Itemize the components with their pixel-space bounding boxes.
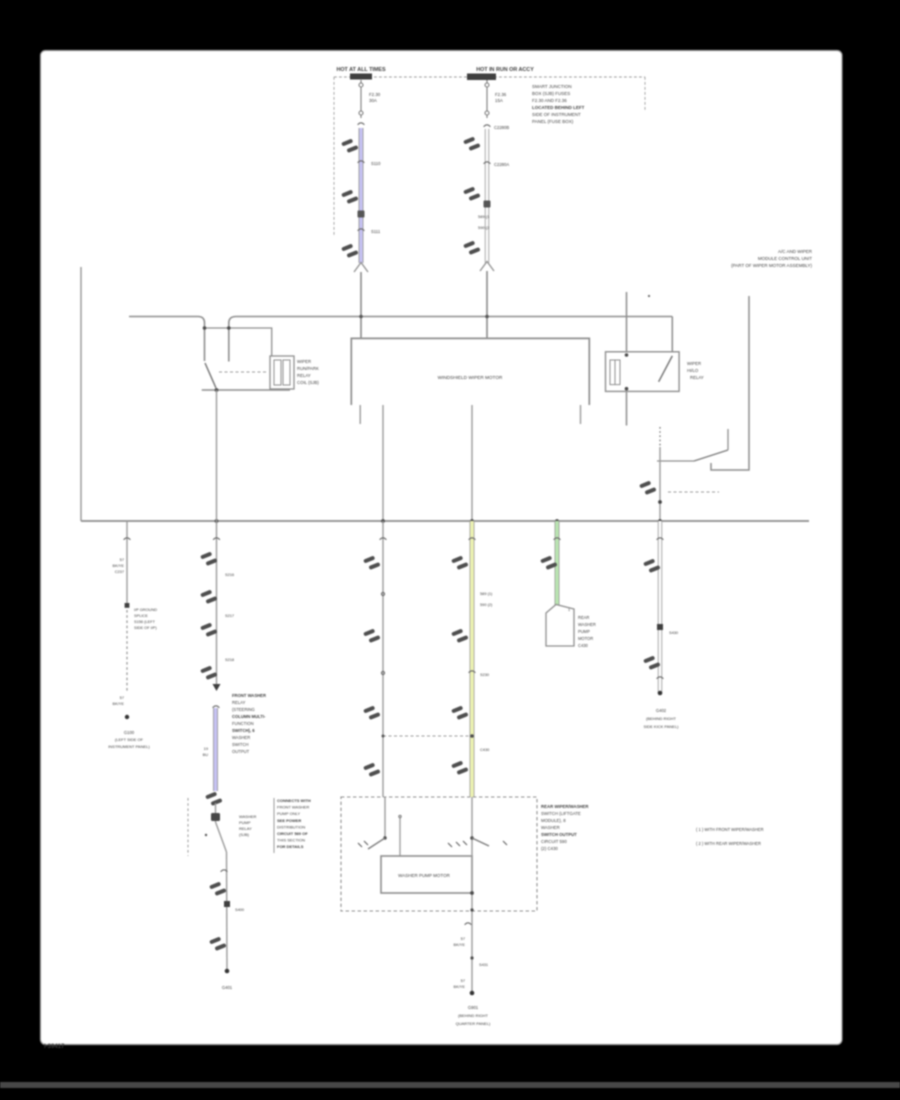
drop2 lower wire a: [215, 803, 217, 822]
svg-text:S216: S216: [225, 572, 234, 577]
drop1 connector tick: [124, 538, 131, 540]
svg-text:( 1 ) WITH FRONT WIPER/WASHER: ( 1 ) WITH FRONT WIPER/WASHER: [696, 827, 764, 832]
svg-text:SWITCH: SWITCH: [232, 742, 249, 747]
svg-text:G401: G401: [222, 985, 233, 990]
bracket dashed left: [187, 798, 189, 856]
svg-text:590 (2: 590 (2: [478, 225, 490, 230]
drop5 green wire: [555, 521, 560, 606]
wire left frame vertical: [80, 267, 82, 521]
drop2 code mark 4: [200, 666, 217, 680]
drop3 wire: [382, 521, 384, 797]
svg-text:C237: C237: [115, 569, 124, 574]
drop4 splice S230: [469, 671, 476, 673]
svg-text:BOX (SJB) FUSES: BOX (SJB) FUSES: [532, 91, 570, 96]
svg-text:CIRCUIT 590: CIRCUIT 590: [541, 839, 567, 844]
svg-text:RELAY: RELAY: [239, 826, 252, 831]
drop3 code mark 1: [363, 556, 380, 570]
relay K2 blade: [659, 356, 673, 382]
connector tick blue mid1: [358, 161, 365, 163]
switch contact stub: [399, 818, 401, 856]
multifunction switch dashed box: [341, 797, 537, 911]
drop4 tick: [469, 538, 476, 540]
switch blade right: [472, 838, 489, 846]
SJB text block: [532, 84, 585, 124]
svg-text:DISTRIBUTION: DISTRIBUTION: [277, 824, 305, 829]
wire main horizontal right segment: [229, 317, 673, 362]
svg-text:589 (1): 589 (1): [480, 591, 493, 596]
drop4 code mark 3: [451, 706, 468, 720]
svg-text:CONNECTS WITH: CONNECTS WITH: [277, 798, 311, 803]
drop1 wire: [126, 521, 128, 606]
relay K1 coil box: [270, 356, 294, 389]
module loop wire: [711, 296, 749, 470]
svg-text:RUN/PARK: RUN/PARK: [297, 366, 319, 371]
wire blue feed left: [359, 128, 364, 263]
drop2 code rows blue: [203, 746, 209, 757]
relay K1 label: [297, 359, 319, 385]
washer pump box: [546, 605, 574, 647]
svg-text:WASHER: WASHER: [541, 825, 560, 830]
drop3 code mark 4: [363, 763, 380, 777]
wire corner down to relay K2: [671, 317, 673, 353]
footer strip: [0, 1082, 900, 1088]
switch module label: [541, 804, 589, 851]
svg-text:S218: S218: [225, 657, 234, 662]
svg-text:30A: 30A: [369, 98, 377, 103]
connector tick blue mid2: [358, 229, 365, 231]
svg-text:57: 57: [461, 978, 465, 983]
svg-text:HI/LO: HI/LO: [687, 368, 699, 373]
svg-text:SWITCH (LIFTGATE: SWITCH (LIFTGATE: [541, 811, 581, 816]
relay K2 coil: [610, 360, 620, 385]
fuse F2 element: [485, 80, 489, 118]
drop2 wire blue: [213, 708, 218, 791]
fuse box dashed outline left: [333, 77, 335, 235]
svg-text:S110: S110: [371, 161, 381, 166]
drop2 code mark 5: [209, 882, 226, 896]
wire code mark B3: [463, 241, 480, 255]
fuse F2 value label: [495, 92, 507, 103]
fuse F2 tab: [467, 74, 496, 81]
svg-text:F2.36: F2.36: [495, 92, 507, 97]
svg-text:S111: S111: [371, 229, 381, 234]
ground G401 node: [225, 969, 230, 974]
connector C1 on left feed: [358, 123, 365, 125]
node bus d4: [470, 519, 474, 523]
svg-text:WINDSHIELD WIPER MOTOR: WINDSHIELD WIPER MOTOR: [438, 375, 503, 380]
dashed ref link: [668, 491, 719, 493]
wire right fuse to bus: [486, 271, 488, 339]
svg-text:C430: C430: [480, 747, 490, 752]
wiper motor pin 3 wire: [471, 405, 473, 521]
label washer pump relay: [239, 814, 257, 837]
svg-text:FRONT WASHER: FRONT WASHER: [277, 805, 309, 810]
drop6 tick 2: [657, 677, 664, 679]
stub top mark: [399, 815, 401, 817]
relay K1 bottom wire: [202, 389, 290, 391]
node sw right 1: [470, 836, 474, 840]
wire left fuse to bus: [360, 272, 362, 339]
svg-text:REAR WIPER/WASHER: REAR WIPER/WASHER: [541, 804, 589, 809]
wire K2 to bus: [659, 447, 661, 521]
drop3 code mark 2: [363, 629, 380, 643]
drop1 wire code rows: [113, 557, 125, 574]
drop2 code mark 2: [200, 590, 217, 604]
svg-text:57: 57: [120, 557, 124, 562]
washer pump label: [578, 615, 596, 648]
svg-text:57: 57: [461, 936, 465, 941]
drop4 yellow wire: [470, 521, 475, 797]
ground G901 label: [456, 1005, 491, 1026]
svg-text:SIDE OF I/P): SIDE OF I/P): [134, 625, 157, 630]
svg-text:WIPER: WIPER: [687, 361, 701, 366]
note block right: [277, 798, 311, 849]
drop2 tick 2: [213, 706, 220, 708]
svg-text:SWITCH OUTPUT: SWITCH OUTPUT: [541, 832, 577, 837]
svg-text:C2280A: C2280A: [494, 162, 509, 167]
svg-text:15A: 15A: [495, 98, 503, 103]
svg-text:PANEL (FUSE BOX): PANEL (FUSE BOX): [532, 119, 574, 124]
svg-text:590 (2): 590 (2): [480, 602, 493, 607]
svg-text:BU: BU: [203, 752, 209, 757]
drop4 code mark 2: [451, 629, 468, 643]
park switch base: [657, 460, 694, 462]
inline connector blob right feed: [484, 201, 491, 208]
svg-text:(SJB): (SJB): [239, 832, 250, 837]
washer pump inner box: [381, 856, 472, 893]
svg-text:C430: C430: [578, 643, 589, 648]
node bus d5: [555, 519, 559, 523]
svg-text:THIS SECTION: THIS SECTION: [277, 838, 305, 843]
svg-text:FUNCTION: FUNCTION: [232, 721, 254, 726]
svg-text:MODULE CONTROL UNIT: MODULE CONTROL UNIT: [758, 256, 812, 261]
drop2 inline connector block: [211, 813, 220, 821]
relay K2 box: [606, 352, 680, 392]
connector dotted C3: [484, 162, 491, 164]
drop2 diagonal wire: [216, 822, 227, 852]
node K1 a: [203, 326, 207, 330]
contact marks right: [448, 841, 507, 847]
svg-text:CIRCUIT 589 OF: CIRCUIT 589 OF: [277, 831, 308, 836]
svg-text:PUMP: PUMP: [239, 820, 251, 825]
svg-text:A/C AND WIPER: A/C AND WIPER: [778, 249, 813, 254]
svg-text:l-39417: l-39417: [44, 1044, 65, 1050]
svg-text:C2280B: C2280B: [494, 125, 509, 130]
svg-text:SIDE OF INSTRUMENT: SIDE OF INSTRUMENT: [532, 112, 581, 117]
ground bus horizontal: [81, 520, 809, 522]
wiper motor box: [351, 338, 589, 405]
svg-text:F2.30: F2.30: [369, 92, 381, 97]
fuse F1 tab: [350, 74, 372, 80]
svg-text:589 (1: 589 (1: [478, 214, 490, 219]
relay K2 vertical wire: [626, 292, 628, 426]
small ref dot: [205, 834, 207, 836]
svg-text:S156 (LEFT: S156 (LEFT: [134, 619, 156, 624]
svg-text:MOTOR: MOTOR: [578, 636, 593, 641]
connector chevron end left: [354, 263, 368, 273]
svg-text:RELAY: RELAY: [297, 373, 311, 378]
svg-text:BK/YE: BK/YE: [113, 563, 125, 568]
svg-text:RELAY: RELAY: [690, 375, 704, 380]
svg-text:FOR DETAILS: FOR DETAILS: [277, 844, 304, 849]
fuse F1 element: [359, 80, 363, 118]
node bus d2: [215, 519, 219, 523]
svg-text:WASHER: WASHER: [232, 735, 250, 740]
svg-text:57: 57: [120, 695, 124, 700]
svg-text:S430: S430: [669, 630, 679, 635]
svg-text:(BEHIND RIGHT: (BEHIND RIGHT: [458, 1013, 489, 1018]
connector chevron end right: [480, 262, 494, 272]
wire main horizontal left segment: [129, 317, 205, 362]
drop2 connector tick: [213, 538, 220, 540]
drop6 code mark 1: [643, 559, 660, 573]
wire white feed right: [485, 129, 489, 263]
relay K1 linkage dashed: [219, 371, 268, 373]
relay K1 coil bars: [274, 360, 290, 385]
fuse box dashed outline right: [644, 77, 646, 112]
module label: [731, 249, 813, 268]
switch wire left: [384, 797, 386, 838]
drop6 splice block: [657, 624, 663, 630]
fuse box dashed outline top: [334, 76, 645, 78]
node jumper left: [382, 735, 385, 738]
below box tick: [465, 923, 472, 925]
svg-text:SWITCH), 6: SWITCH), 6: [232, 728, 255, 733]
drop4 code mark 4: [451, 761, 468, 775]
svg-text:(STEERING: (STEERING: [232, 707, 255, 712]
svg-text:S431: S431: [479, 962, 488, 967]
svg-text:G402: G402: [656, 708, 667, 713]
svg-text:FRONT WASHER: FRONT WASHER: [232, 693, 266, 698]
drop2 wire upper: [216, 390, 218, 684]
drop6 tick: [657, 538, 664, 540]
svg-text:I/P GROUND: I/P GROUND: [134, 607, 157, 612]
svg-text:WIPER: WIPER: [297, 359, 311, 364]
wire code mark A3: [341, 244, 358, 258]
svg-text:COIL (SJB): COIL (SJB): [297, 380, 319, 385]
svg-text:PUMP ONLY: PUMP ONLY: [277, 811, 301, 816]
relay K2 label: [687, 361, 704, 380]
svg-text:(2) C430: (2) C430: [541, 846, 558, 851]
node K2 bottom: [625, 387, 629, 391]
svg-text:MODULE), 8: MODULE), 8: [541, 818, 566, 823]
drop2 code mark 6: [209, 937, 226, 951]
svg-text:QUARTER PANEL): QUARTER PANEL): [456, 1021, 491, 1026]
wire code mark B1: [463, 137, 480, 151]
switch blade left: [368, 838, 385, 849]
svg-text:SPLICE: SPLICE: [134, 613, 148, 618]
drop2 code mark 3: [200, 623, 217, 637]
svg-text:SEE POWER: SEE POWER: [277, 818, 301, 823]
dashed jumper: [383, 735, 470, 737]
ground G901 node: [470, 991, 475, 996]
park switch blade: [694, 450, 728, 461]
drop1 splice mark: [125, 603, 130, 608]
small node above K2: [648, 295, 650, 297]
svg-text:RELAY: RELAY: [232, 700, 246, 705]
below box code rows: [454, 936, 466, 947]
svg-text:S400: S400: [235, 907, 245, 912]
svg-text:BK/YE: BK/YE: [113, 701, 125, 706]
connector C2 on right feed: [484, 125, 491, 127]
drop4 code mark 1: [451, 556, 468, 570]
svg-text:1: 1: [568, 608, 570, 612]
node K2 top: [625, 353, 629, 357]
svg-text:BK/YE: BK/YE: [454, 984, 466, 989]
svg-text:INSTRUMENT PANEL): INSTRUMENT PANEL): [108, 744, 150, 749]
park switch stub: [727, 429, 729, 450]
switch wire right vertical: [471, 797, 473, 993]
drop2 lower wire b: [226, 852, 229, 971]
svg-text:S217: S217: [225, 613, 234, 618]
svg-text:G100: G100: [124, 730, 135, 735]
node park out: [658, 500, 662, 504]
svg-text:SMART JUNCTION: SMART JUNCTION: [532, 84, 572, 89]
drop2 splice block: [224, 901, 230, 907]
wiper motor pin 4: [580, 405, 582, 424]
node K1 b: [227, 326, 231, 330]
svg-text:( 2 ) WITH REAR WIPER/WASHER: ( 2 ) WITH REAR WIPER/WASHER: [696, 841, 761, 846]
svg-text:G901: G901: [468, 1005, 479, 1010]
drop2 component label: [232, 693, 266, 754]
drop2 lower code mark: [205, 792, 222, 806]
ground G100 node: [125, 715, 129, 719]
drop5 code mark: [540, 556, 557, 570]
node jumper right: [470, 734, 474, 738]
svg-text:(LEFT SIDE OF: (LEFT SIDE OF: [115, 737, 144, 742]
drop1 code rows 2: [113, 695, 125, 706]
wire code mark A1: [341, 139, 358, 153]
drop4 ref rows: [480, 591, 493, 607]
svg-text:19: 19: [204, 746, 208, 751]
drop3 tick: [380, 538, 387, 540]
park switch dotted link: [659, 427, 661, 447]
svg-text:SIDE KICK PANEL): SIDE KICK PANEL): [643, 724, 679, 729]
wire code mark A2: [341, 190, 358, 204]
svg-text:BK/YE: BK/YE: [454, 942, 466, 947]
svg-text:WASHER: WASHER: [239, 814, 257, 819]
svg-text:F2.30 AND F2.36: F2.30 AND F2.36: [532, 98, 567, 103]
bracket rule: [273, 798, 275, 853]
node left fuse bus: [359, 315, 363, 319]
drop2 tick 3: [221, 870, 228, 872]
svg-text:HOT IN RUN OR ACCY: HOT IN RUN OR ACCY: [476, 67, 534, 73]
svg-text:REAR: REAR: [578, 615, 589, 620]
drop6 code mark 2: [643, 656, 660, 670]
drop1 splice label: [134, 607, 157, 630]
node sw right 2: [470, 891, 474, 895]
svg-text:WASHER: WASHER: [578, 622, 596, 627]
ground G402 node: [658, 691, 663, 696]
drop3 splice ring 2: [381, 671, 384, 674]
relay K1 blade: [205, 363, 216, 388]
node right fuse bus: [485, 315, 489, 319]
svg-text:COLUMN MULTI-: COLUMN MULTI-: [232, 714, 266, 719]
node bus d6: [658, 519, 662, 523]
wire code mark B2: [463, 187, 480, 201]
node S431: [470, 956, 473, 959]
inline connector blob left feed: [358, 211, 365, 218]
svg-text:HOT AT ALL TIMES: HOT AT ALL TIMES: [336, 67, 386, 73]
contact marks left: [358, 841, 368, 847]
wiper motor pin 1: [359, 405, 361, 424]
node bus d3: [381, 519, 385, 523]
wiper motor pin 2 wire: [382, 405, 384, 521]
svg-text:WASHER PUMP MOTOR: WASHER PUMP MOTOR: [398, 873, 450, 878]
fuse F1 value label: [369, 92, 381, 103]
drop1 dashed wire: [126, 610, 128, 692]
node sw exit: [470, 908, 473, 911]
drop5 tick: [554, 538, 561, 540]
code rows 2: [454, 978, 466, 989]
svg-text:(PART OF WIPER MOTOR ASSEMBLY): (PART OF WIPER MOTOR ASSEMBLY): [731, 263, 812, 268]
svg-text:PUMP: PUMP: [578, 629, 590, 634]
relay K1 coil feed horizontal: [205, 328, 272, 356]
wire code mark C1: [639, 481, 656, 495]
svg-text:LOCATED BEHIND LEFT: LOCATED BEHIND LEFT: [532, 105, 585, 110]
svg-text:S230: S230: [480, 672, 490, 677]
drop2 code mark 1: [200, 552, 217, 566]
node K1 out: [215, 388, 219, 392]
svg-text:OUTPUT: OUTPUT: [232, 749, 250, 754]
ground G402 label: [643, 708, 679, 729]
ground G100 label: [108, 730, 150, 749]
drop2 inline connector arrow: [213, 684, 221, 691]
drop6 white wire: [658, 521, 662, 693]
drop3 splice ring 1: [381, 592, 384, 595]
svg-text:(BEHIND RIGHT: (BEHIND RIGHT: [646, 716, 677, 721]
node switch left: [383, 836, 386, 839]
drop3 code mark 3: [363, 706, 380, 720]
